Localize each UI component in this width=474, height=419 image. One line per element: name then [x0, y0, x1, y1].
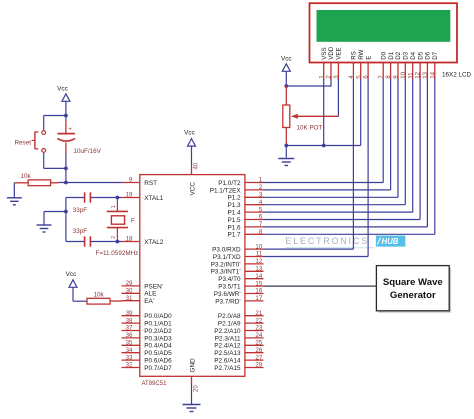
svg-text:VEE: VEE — [336, 47, 343, 59]
svg-text:VSS: VSS — [321, 47, 328, 59]
svg-text:8: 8 — [385, 75, 392, 79]
svg-text:10k: 10k — [94, 292, 105, 299]
pin 36 P0.3/AD3 — [122, 332, 173, 342]
svg-text:11: 11 — [407, 72, 414, 79]
svg-text:RS: RS — [351, 51, 358, 60]
svg-text:P0.3/AD3: P0.3/AD3 — [144, 335, 172, 342]
svg-text:P3.3/INT1': P3.3/INT1' — [211, 269, 241, 276]
svg-text:40: 40 — [193, 162, 199, 169]
node pot-bottom — [284, 144, 288, 148]
wire to reset button — [44, 116, 66, 131]
svg-text:10: 10 — [255, 243, 262, 250]
svg-text:P3.4/T0: P3.4/T0 — [218, 276, 241, 283]
pin 26 P2.5/A13 — [214, 347, 263, 357]
LCD pin 12 (D5) — [415, 51, 425, 79]
block Square Wave Generator — [376, 266, 451, 313]
label AT89C51 — [142, 381, 168, 387]
LCD pin 9 (D2) — [393, 51, 403, 79]
svg-text:4: 4 — [259, 199, 263, 206]
label 10uF/16V — [74, 148, 102, 155]
LCD pin 8 (D1) — [385, 51, 395, 79]
svg-text:HUB: HUB — [382, 237, 399, 246]
node reset Vcc junction — [64, 114, 68, 118]
svg-text:29: 29 — [126, 280, 133, 287]
svg-text:18: 18 — [126, 236, 133, 243]
svg-text:D0: D0 — [380, 51, 387, 59]
LCD pin 11 (D4) — [407, 51, 417, 79]
svg-text:P3.7/RD': P3.7/RD' — [215, 298, 240, 305]
ground (crystal) — [37, 212, 66, 233]
wire ground rail to RW — [286, 79, 360, 146]
LCD pin 7 (D0) — [378, 51, 388, 79]
LCD pin 10 (D3) — [400, 51, 410, 79]
pin 8 P1.7 — [227, 229, 263, 239]
svg-text:Vcc: Vcc — [66, 271, 77, 278]
svg-text:1: 1 — [111, 205, 117, 208]
svg-text:AT89C51: AT89C51 — [142, 381, 168, 387]
svg-text:Square Wave: Square Wave — [383, 277, 443, 288]
microcontroller U1 AT89C51 body — [140, 175, 245, 377]
svg-text:8: 8 — [259, 229, 263, 236]
svg-text:7: 7 — [259, 221, 263, 228]
svg-text:P1.7: P1.7 — [227, 232, 241, 239]
svg-text:28: 28 — [255, 362, 262, 369]
node XTAL1 junction — [116, 196, 120, 200]
svg-text:6: 6 — [259, 214, 263, 221]
svg-text:F: F — [131, 217, 135, 224]
wire button to node — [44, 153, 66, 169]
svg-text:P0.0/AD0: P0.0/AD0 — [144, 313, 172, 320]
LCD pin 2 (VDD) — [326, 46, 336, 79]
svg-text:31: 31 — [126, 295, 133, 302]
svg-text:3: 3 — [333, 75, 340, 79]
potentiometer RV1 10K POT — [283, 86, 339, 146]
svg-text:10K POT: 10K POT — [297, 125, 323, 132]
svg-text:25: 25 — [255, 340, 262, 347]
svg-text:XTAL2: XTAL2 — [144, 239, 164, 246]
svg-text:20: 20 — [193, 385, 199, 392]
pin 40 VCC stub — [192, 162, 200, 174]
capacitor C2 33pF (XTAL2) — [66, 236, 122, 246]
label Reset — [15, 140, 32, 147]
svg-text:P0.6/AD6: P0.6/AD6 — [144, 358, 172, 365]
pin 16 P3.6/WR' — [214, 288, 264, 298]
svg-text:P2.3/A11: P2.3/A11 — [215, 335, 241, 342]
svg-text:P3.1/TXD: P3.1/TXD — [213, 254, 241, 261]
svg-text:16X2 LCD: 16X2 LCD — [442, 72, 472, 79]
svg-text:10k: 10k — [21, 173, 32, 180]
pin 20 GND stub — [192, 376, 200, 392]
LCD pin 13 (D6) — [422, 51, 432, 79]
pin 1 P1.0/T2 — [218, 177, 263, 187]
resistor R1 10k — [14, 180, 58, 186]
wire D2: P1.2 to LCD D2 — [263, 79, 398, 197]
svg-text:E: E — [365, 56, 372, 60]
svg-text:6: 6 — [363, 75, 370, 79]
svg-text:ELECTRONICS: ELECTRONICS — [286, 236, 369, 246]
svg-text:34: 34 — [126, 347, 133, 354]
svg-text:2: 2 — [326, 75, 333, 79]
svg-text:PSENʹ: PSENʹ — [144, 282, 163, 290]
svg-text:P1.0/T2: P1.0/T2 — [218, 180, 241, 187]
pin 27 P2.6/A14 — [214, 354, 263, 364]
capacitor C1 33pF (XTAL1) — [66, 192, 122, 202]
svg-text:33: 33 — [126, 354, 133, 361]
svg-text:2: 2 — [111, 236, 117, 239]
svg-text:P0.2/AD2: P0.2/AD2 — [144, 328, 172, 335]
pin 7 P1.6 — [227, 221, 263, 231]
crystal X1 — [107, 198, 128, 242]
svg-text:9: 9 — [129, 177, 133, 184]
pin 11 P3.1/TXD — [213, 251, 264, 261]
svg-text:P2.7/A15: P2.7/A15 — [214, 365, 241, 372]
wire D1: P1.1 to LCD D1 — [263, 79, 390, 190]
svg-text:XTAL1: XTAL1 — [144, 195, 164, 202]
pin 34 P0.5/AD5 — [122, 347, 173, 357]
svg-text:Vcc: Vcc — [57, 86, 68, 93]
svg-text:EAʹ: EAʹ — [144, 297, 154, 305]
svg-text:Vcc: Vcc — [184, 130, 195, 137]
wire D7: P1.7 to LCD D7 — [263, 79, 435, 234]
power Vcc (reset) — [57, 86, 70, 116]
svg-text:22: 22 — [255, 317, 262, 324]
pin 37 P0.2/AD2 — [122, 325, 173, 335]
node crystal ground tap — [64, 210, 68, 214]
node cap/button bottom — [64, 167, 68, 171]
svg-text:P2.6/A14: P2.6/A14 — [214, 358, 241, 365]
svg-text:36: 36 — [126, 332, 133, 339]
LCD pin 4 (RS) — [348, 51, 358, 79]
svg-text:P0.7/AD7: P0.7/AD7 — [144, 365, 172, 372]
svg-text:19: 19 — [126, 192, 133, 199]
svg-text:33pF: 33pF — [73, 228, 88, 235]
svg-text:P1.3: P1.3 — [227, 202, 241, 209]
pin 31 EA&#697; — [122, 295, 155, 305]
label 10K POT — [297, 125, 323, 132]
svg-text:5: 5 — [259, 206, 263, 213]
ground (MCU pin 20) — [183, 385, 201, 412]
svg-text:ALE: ALE — [144, 291, 156, 298]
ground (R1) — [7, 183, 22, 205]
pin 3 P1.2 — [227, 192, 263, 202]
LCD pin 5 (RW) — [355, 49, 365, 79]
svg-text:35: 35 — [126, 340, 133, 347]
wire RS to P3.0/RXD — [263, 79, 353, 249]
label F (crystal ref) — [131, 217, 135, 224]
label 10k (R1) — [21, 173, 32, 180]
node XTAL2 junction — [116, 240, 120, 244]
svg-text:VCC: VCC — [190, 182, 197, 196]
svg-text:27: 27 — [255, 354, 262, 361]
pin 19 XTAL1 — [122, 192, 164, 202]
svg-text:33pF: 33pF — [73, 207, 88, 214]
pin 24 P2.3/A11 — [215, 332, 264, 342]
LCD pin 6 (E) — [363, 56, 373, 80]
svg-text:13: 13 — [422, 71, 429, 78]
LCD pin 3 (VEE) — [333, 47, 343, 79]
svg-text:10: 10 — [400, 71, 407, 78]
svg-text:13: 13 — [255, 266, 262, 273]
svg-text:P1.5: P1.5 — [227, 217, 241, 224]
svg-text:P1.1/T2EX: P1.1/T2EX — [210, 187, 242, 194]
power Vcc (EA) — [66, 271, 77, 301]
pin 15 P3.5/T1 — [218, 280, 263, 290]
pin 39 P0.0/AD0 — [122, 310, 173, 320]
svg-text:11: 11 — [256, 251, 263, 258]
svg-text:12: 12 — [415, 71, 422, 78]
wire D3: P1.3 to LCD D3 — [263, 79, 405, 205]
wire D0: P1.0 to LCD D0 — [263, 79, 383, 183]
svg-text:15: 15 — [255, 280, 262, 287]
svg-text:17: 17 — [255, 295, 262, 302]
svg-text:23: 23 — [255, 325, 262, 332]
svg-text:2: 2 — [259, 184, 263, 191]
svg-text:P2.0/A8: P2.0/A8 — [218, 313, 241, 320]
power Vcc (pot) — [281, 56, 292, 87]
pin 5 P1.4 — [227, 206, 263, 216]
label 10k (R2) — [94, 292, 105, 299]
pin 2 P1.1/T2EX — [210, 184, 264, 194]
svg-text:38: 38 — [126, 317, 133, 324]
pin 38 P0.1/AD1 — [122, 317, 173, 327]
svg-text:P2.2/A10: P2.2/A10 — [214, 328, 241, 335]
watermark ElectronicsHub logo — [286, 236, 406, 248]
svg-text:F=11.0592MHz: F=11.0592MHz — [96, 250, 139, 257]
svg-text:39: 39 — [126, 310, 133, 317]
svg-text:1: 1 — [259, 177, 263, 184]
label 33pF (C1) — [73, 207, 88, 214]
LCD pin 1 (VSS) — [318, 47, 328, 79]
pin 21 P2.0/A8 — [218, 310, 264, 320]
resistor R2 10k (EA pull-up) — [73, 298, 122, 304]
pin 9 RST — [122, 177, 158, 187]
svg-text:30: 30 — [126, 288, 133, 295]
wire D4: P1.4 to LCD D4 — [263, 79, 413, 212]
svg-text:D1: D1 — [388, 51, 395, 59]
pin 13 P3.3/INT1' — [211, 266, 264, 276]
pin 29 PSEN&#697; — [122, 280, 163, 290]
svg-text:RST: RST — [144, 180, 157, 187]
svg-text:P2.1/A9: P2.1/A9 — [218, 321, 241, 328]
pin 4 P1.3 — [227, 199, 263, 209]
svg-text:GND: GND — [190, 358, 197, 373]
svg-text:D5: D5 — [417, 51, 424, 59]
svg-text:P1.6: P1.6 — [227, 224, 241, 231]
pin 28 P2.7/A15 — [214, 362, 263, 372]
capacitor C3 10uF/16V (electrolytic) — [57, 116, 75, 169]
svg-text:14: 14 — [429, 71, 436, 78]
wire P3.5/T1 to generator — [263, 285, 376, 287]
svg-text:1: 1 — [318, 75, 325, 79]
svg-text:RW: RW — [358, 49, 365, 59]
pin 23 P2.2/A10 — [214, 325, 263, 335]
pin 18 XTAL2 — [122, 236, 164, 246]
svg-text:D3: D3 — [403, 51, 410, 59]
svg-text:+: + — [68, 126, 72, 133]
pin 35 P0.4/AD4 — [122, 340, 173, 350]
wire D6: P1.6 to LCD D6 — [263, 79, 427, 227]
wire VDD to Vcc — [286, 79, 331, 87]
ground (pot) — [278, 146, 294, 166]
svg-text:9: 9 — [393, 75, 400, 79]
svg-text:D6: D6 — [425, 51, 432, 59]
svg-text:P0.4/AD4: P0.4/AD4 — [144, 343, 172, 350]
svg-text:P3.5/T1: P3.5/T1 — [218, 284, 241, 291]
svg-text:Vcc: Vcc — [281, 56, 292, 63]
svg-text:P0.1/AD1: P0.1/AD1 — [144, 321, 172, 328]
pin 33 P0.6/AD6 — [122, 354, 173, 364]
svg-text:4: 4 — [348, 75, 355, 79]
svg-text:Reset: Reset — [15, 140, 32, 147]
svg-text:26: 26 — [255, 347, 262, 354]
pin 17 P3.7/RD' — [215, 295, 263, 305]
wire D5: P1.5 to LCD D5 — [263, 79, 420, 220]
pin 12 P3.2/INT0' — [211, 258, 264, 268]
svg-text:P3.0/RXD: P3.0/RXD — [212, 247, 241, 254]
pin 32 P0.7/AD7 — [122, 362, 173, 372]
svg-text:21: 21 — [255, 310, 262, 317]
node pot-top / VDD junction — [284, 84, 288, 88]
svg-text:P3.6/WR': P3.6/WR' — [214, 291, 241, 298]
pin 14 P3.4/T0 — [218, 273, 263, 283]
node RST junction — [64, 181, 68, 185]
svg-text:14: 14 — [255, 273, 262, 280]
svg-text:37: 37 — [126, 325, 133, 332]
svg-text:P3.2/INT0': P3.2/INT0' — [211, 261, 241, 268]
svg-text:P1.4: P1.4 — [227, 210, 241, 217]
svg-text:D7: D7 — [432, 51, 439, 59]
svg-text:3: 3 — [259, 192, 263, 199]
svg-text:32: 32 — [126, 362, 133, 369]
pin 6 P1.5 — [227, 214, 263, 224]
svg-text:P2.4/A12: P2.4/A12 — [214, 343, 241, 350]
svg-text:Generator: Generator — [390, 290, 436, 301]
svg-text:VDD: VDD — [328, 46, 335, 60]
svg-text:P0.5/AD5: P0.5/AD5 — [144, 350, 172, 357]
LCD pin 14 (D7) — [429, 51, 439, 79]
svg-text:7: 7 — [378, 75, 385, 79]
label 16X2 LCD — [442, 72, 472, 79]
svg-text:P1.2: P1.2 — [227, 195, 241, 202]
label 33pF (C2) — [73, 228, 88, 235]
svg-text:P2.5/A13: P2.5/A13 — [214, 350, 241, 357]
wire E to P3.1/TXD — [263, 79, 368, 257]
svg-text:12: 12 — [255, 258, 262, 265]
push button Reset — [32, 131, 46, 153]
svg-text:D4: D4 — [410, 51, 417, 59]
svg-text:24: 24 — [255, 332, 262, 339]
wire VSS — [323, 79, 325, 146]
pin 10 P3.0/RXD — [212, 243, 263, 253]
LCD module 16X2 LCD — [310, 3, 458, 62]
pin 30 ALE — [122, 288, 157, 298]
power Vcc (MCU pin 40) — [184, 130, 195, 166]
svg-text:10uF/16V: 10uF/16V — [74, 148, 102, 155]
wire RST net — [59, 182, 122, 184]
svg-text:D2: D2 — [395, 51, 402, 59]
node VSS junction — [322, 144, 326, 148]
svg-text:16: 16 — [255, 288, 262, 295]
label F=11.0592MHz — [96, 250, 139, 257]
wire VEE to pot wiper — [337, 79, 339, 116]
pin 25 P2.4/A12 — [214, 340, 263, 350]
svg-text:5: 5 — [355, 75, 362, 79]
wire node to RST line — [65, 168, 67, 182]
pin 22 P2.1/A9 — [218, 317, 264, 327]
wire crystal left rail — [65, 198, 67, 242]
